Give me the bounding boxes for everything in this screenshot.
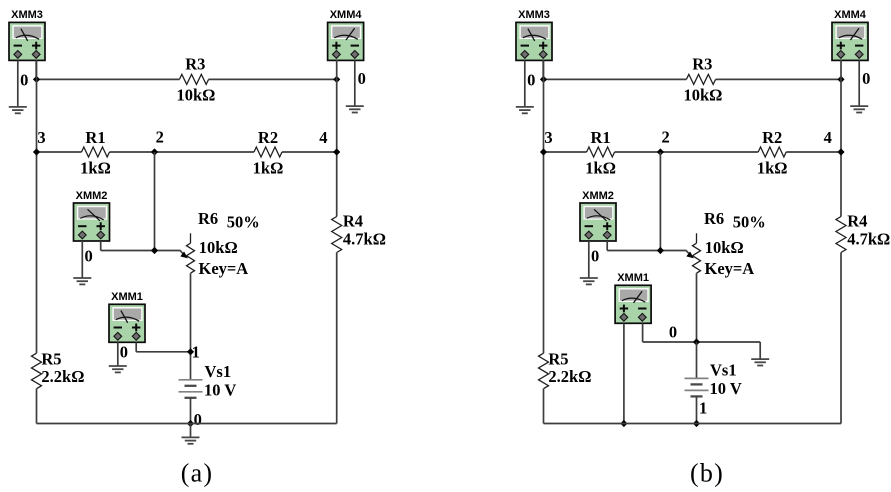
multimeter XMM4 (a) <box>328 22 364 60</box>
right rail wire (a) <box>336 60 338 217</box>
potentiometer R6 (a) <box>190 233 192 243</box>
svg-text:0: 0 <box>194 410 202 429</box>
junction node 2 (b) <box>657 148 664 155</box>
left rail wire (a) <box>36 60 38 353</box>
svg-text:4.7kΩ: 4.7kΩ <box>343 229 386 248</box>
svg-text:R1: R1 <box>85 128 105 147</box>
wire XMM2 minus to ground (b) <box>588 241 590 278</box>
svg-text:R3: R3 <box>692 55 712 74</box>
junction bottom node 0 (a) <box>187 420 194 427</box>
junction XMM1 plus bottom (b) <box>620 420 627 427</box>
svg-text:10kΩ: 10kΩ <box>176 86 215 105</box>
junction top-left (b) <box>540 76 547 83</box>
svg-text:1: 1 <box>699 399 707 418</box>
svg-text:10kΩ: 10kΩ <box>705 238 744 257</box>
wire XMM1 plus to bottom (b) <box>623 323 625 423</box>
svg-text:2: 2 <box>156 128 164 147</box>
resistor R2 (b) <box>758 147 786 157</box>
resistor R1 (a) <box>82 147 110 157</box>
svg-text:(a): (a) <box>181 459 213 488</box>
left rail lower wire (b) <box>543 389 545 424</box>
svg-text:R2: R2 <box>762 128 782 147</box>
svg-text:Vs1: Vs1 <box>205 362 232 381</box>
svg-text:XMM1: XMM1 <box>617 272 649 284</box>
junction Vs1 bottom node 1 (b) <box>693 420 700 427</box>
ground at XMM1 (a) <box>109 366 127 372</box>
ground right of Vs1 (b) <box>751 359 769 365</box>
svg-text:Key=A: Key=A <box>199 259 249 278</box>
wire XMM2 plus to wiper (b) <box>606 241 608 251</box>
wiper arrow of R6 (a) <box>180 252 188 259</box>
wire XMM2 plus to wiper (a) <box>100 241 102 251</box>
svg-text:4: 4 <box>824 128 832 147</box>
junction wiper wire (b) <box>657 247 664 254</box>
svg-text:10kΩ: 10kΩ <box>199 238 238 257</box>
svg-text:R2: R2 <box>258 128 278 147</box>
svg-text:0: 0 <box>862 69 870 88</box>
wire node 2 down (a) <box>154 152 156 251</box>
multimeter XMM1 (a) <box>109 304 145 342</box>
ground at XMM2 (a) <box>73 278 91 284</box>
svg-text:Key=A: Key=A <box>705 259 755 278</box>
bottom wire (b) <box>544 423 842 425</box>
wire XMM1 minus to node 0 (b) <box>642 323 644 342</box>
junction node 4 (b) <box>837 148 844 155</box>
svg-text:0: 0 <box>20 71 28 90</box>
wire R6 bottom to node 0 (b) <box>696 273 698 342</box>
junction top-right (a) <box>333 76 340 83</box>
battery Vs1 (b) <box>696 342 698 378</box>
left rail wire (b) <box>543 60 545 353</box>
multimeter XMM3 (b) <box>516 22 552 60</box>
svg-text:1kΩ: 1kΩ <box>253 159 284 178</box>
resistor R5 (b) <box>539 353 549 389</box>
svg-text:XMM1: XMM1 <box>111 291 143 303</box>
multimeter XMM2 (a) <box>74 203 110 241</box>
wire XMM1 minus to ground (a) <box>117 342 119 366</box>
svg-text:10kΩ: 10kΩ <box>683 86 722 105</box>
svg-text:2: 2 <box>661 128 669 147</box>
svg-text:Vs1: Vs1 <box>710 361 737 380</box>
multimeter XMM3 (a) <box>9 22 45 60</box>
wire XMM4 minus to ground (b) <box>858 60 860 106</box>
svg-text:10 V: 10 V <box>710 379 742 398</box>
svg-text:XMM2: XMM2 <box>582 190 614 202</box>
svg-text:R3: R3 <box>185 55 205 74</box>
potentiometer R6 (b) <box>696 233 698 243</box>
junction node 0 (b) <box>693 338 700 345</box>
ground at XMM4 (b) <box>850 106 868 112</box>
junction node 1 (a) <box>187 348 194 355</box>
bottom wire (a) <box>37 423 337 425</box>
junction node 3 (a) <box>33 148 40 155</box>
wire XMM3 plus to top rail (a) <box>35 60 37 79</box>
wiper arrow of R6 (b) <box>686 252 694 259</box>
multimeter XMM2 (b) <box>580 203 616 241</box>
svg-text:4.7kΩ: 4.7kΩ <box>847 229 890 248</box>
svg-text:0: 0 <box>120 342 128 361</box>
svg-text:XMM3: XMM3 <box>11 9 43 21</box>
top wire node 0 (a) <box>37 78 180 80</box>
resistor R3 (a) <box>179 74 208 84</box>
middle wire nodes 3-2-4 (b) <box>544 151 587 153</box>
svg-text:0: 0 <box>358 69 366 88</box>
wire node 2 down (b) <box>659 152 661 251</box>
svg-text:R6: R6 <box>704 209 724 228</box>
middle wire nodes 3-2-4 (a) <box>37 151 82 153</box>
svg-text:XMM2: XMM2 <box>76 190 108 202</box>
wire XMM4 minus to ground (a) <box>354 60 356 106</box>
svg-text:R4: R4 <box>847 211 867 230</box>
svg-text:3: 3 <box>544 128 552 147</box>
resistor R4 (a) <box>332 217 342 253</box>
svg-text:R1: R1 <box>591 128 611 147</box>
resistor R2 (a) <box>254 147 282 157</box>
wire XMM2 minus to ground (a) <box>81 241 83 278</box>
right rail wire (b) <box>840 60 842 217</box>
svg-text:XMM3: XMM3 <box>518 9 550 21</box>
svg-text:XMM4: XMM4 <box>330 9 363 21</box>
svg-text:0: 0 <box>669 322 677 341</box>
left rail lower wire (a) <box>36 389 38 424</box>
svg-text:1kΩ: 1kΩ <box>80 159 111 178</box>
resistor R1 (b) <box>587 147 615 157</box>
svg-text:50%: 50% <box>227 212 260 231</box>
junction node 4 (a) <box>333 148 340 155</box>
right rail lower wire (a) <box>336 253 338 424</box>
ground at XMM2 (b) <box>580 278 598 284</box>
wire XMM3 minus to ground (b) <box>524 60 526 107</box>
svg-text:0: 0 <box>84 246 92 265</box>
multimeter XMM4 (b) <box>832 22 868 60</box>
multimeter XMM1 (b) <box>615 285 651 323</box>
junction node 2 (a) <box>151 148 158 155</box>
svg-text:R6: R6 <box>198 209 218 228</box>
wire XMM3 plus to top rail (b) <box>542 60 544 79</box>
svg-text:4: 4 <box>319 128 327 147</box>
top wire node 0 (b) <box>544 78 687 80</box>
svg-text:50%: 50% <box>733 212 766 231</box>
svg-text:1kΩ: 1kΩ <box>585 159 616 178</box>
junction node 3 (b) <box>540 148 547 155</box>
resistor R3 (b) <box>686 74 715 84</box>
junction wiper wire (a) <box>151 247 158 254</box>
ground at Vs1 bottom (a) <box>190 424 192 438</box>
wire XMM3 minus to ground (a) <box>17 60 19 107</box>
resistor R4 (b) <box>836 217 846 253</box>
svg-text:0: 0 <box>527 71 535 90</box>
svg-text:(b): (b) <box>690 459 724 488</box>
svg-text:2.2kΩ: 2.2kΩ <box>41 367 84 386</box>
svg-text:R5: R5 <box>548 349 568 368</box>
wire Vs1 bottom (a) <box>190 398 192 424</box>
svg-text:R4: R4 <box>343 211 363 230</box>
battery Vs1 (a) <box>179 380 203 398</box>
junction top-right (b) <box>837 76 844 83</box>
svg-text:10 V: 10 V <box>204 381 236 400</box>
ground at XMM4 (a) <box>346 106 364 112</box>
svg-text:3: 3 <box>37 128 45 147</box>
svg-text:XMM4: XMM4 <box>834 9 867 21</box>
svg-text:R5: R5 <box>41 349 61 368</box>
wire to ground (b) <box>759 342 761 359</box>
svg-text:1: 1 <box>192 342 200 361</box>
wire Vs1 bottom (b) <box>696 396 698 423</box>
right rail lower wire (b) <box>840 253 842 424</box>
resistor R5 (a) <box>32 353 42 389</box>
ground at XMM3 (b) <box>516 107 534 113</box>
ground at XMM3 (a) <box>9 107 27 113</box>
svg-text:1kΩ: 1kΩ <box>757 159 788 178</box>
svg-text:2.2kΩ: 2.2kΩ <box>548 367 591 386</box>
wire R6 bottom to source (a) <box>190 273 192 380</box>
junction top-left (a) <box>33 76 40 83</box>
wire XMM1 plus to node 1 (a) <box>135 342 137 352</box>
svg-text:0: 0 <box>591 246 599 265</box>
